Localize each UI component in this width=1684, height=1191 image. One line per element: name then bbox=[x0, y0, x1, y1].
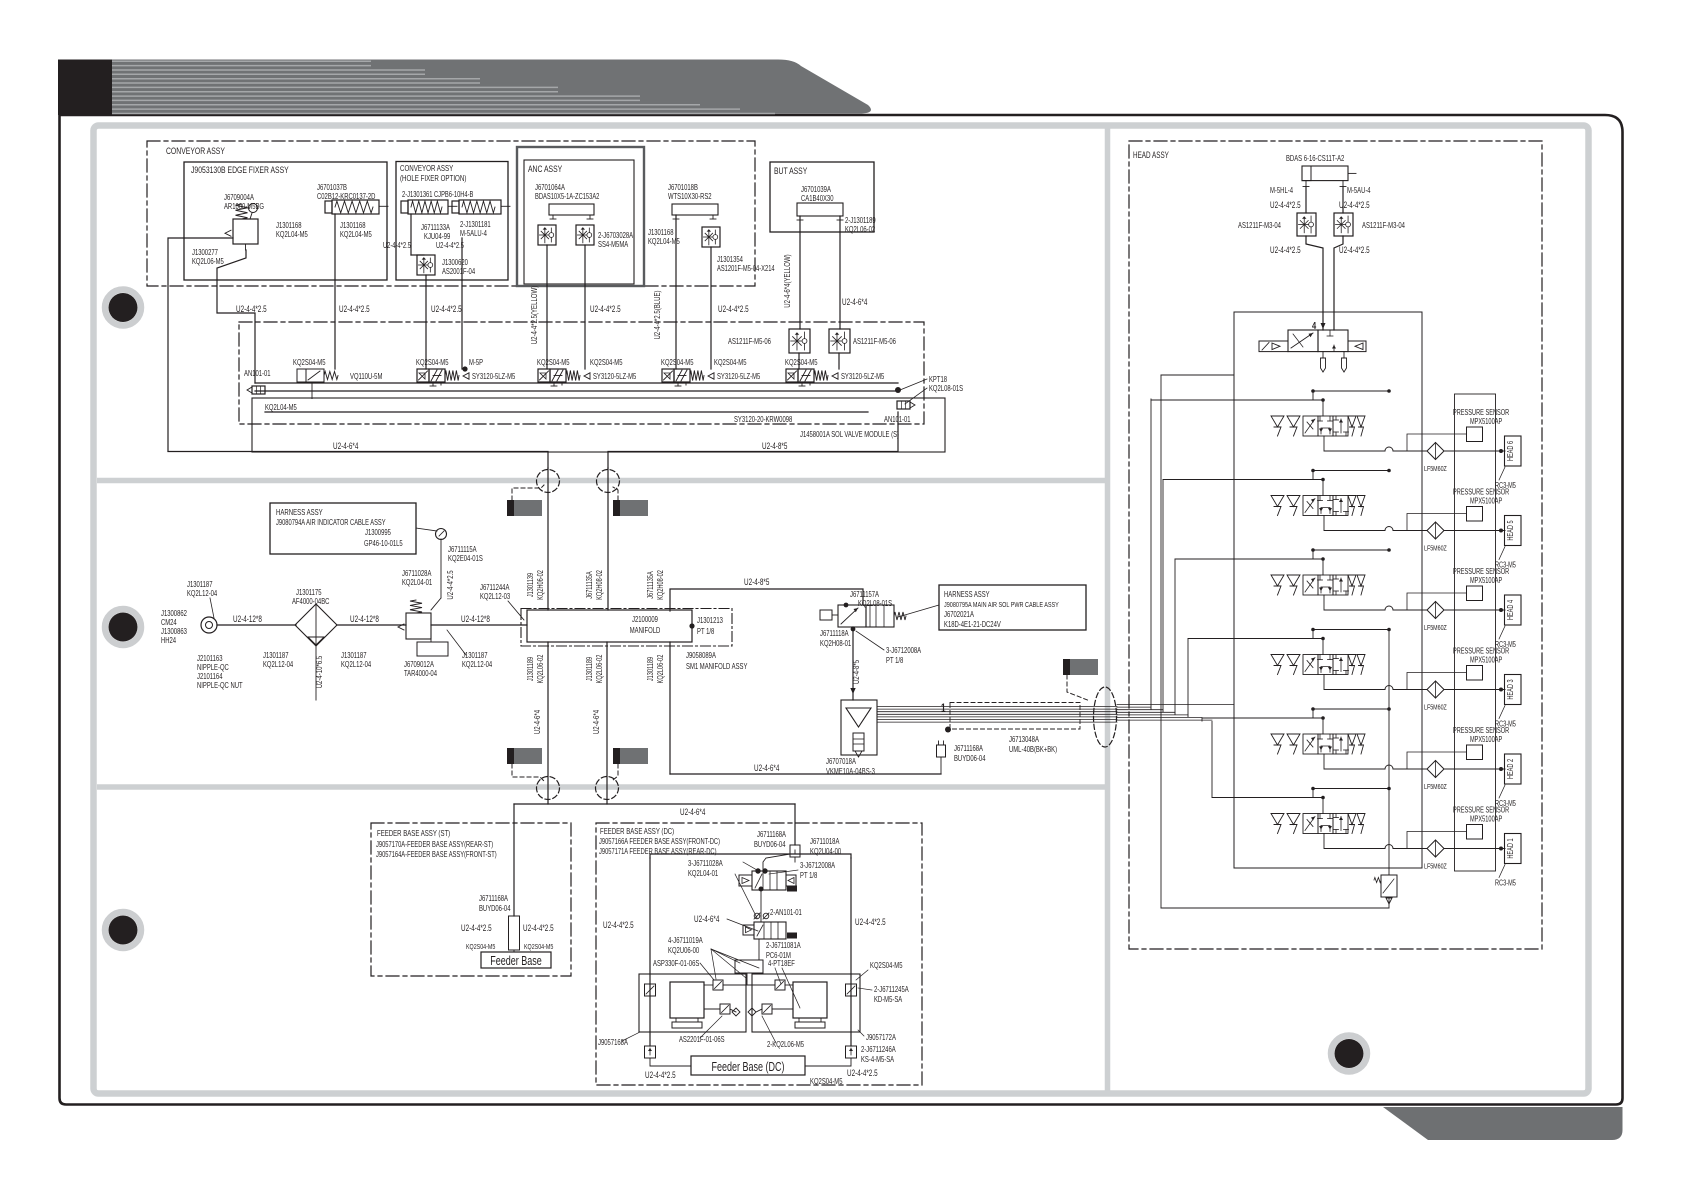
relief valve bbox=[1381, 875, 1397, 897]
svg-text:KQ2S04-M5: KQ2S04-M5 bbox=[661, 358, 694, 367]
svg-text:2-J6711246A: 2-J6711246A bbox=[861, 1045, 896, 1054]
air bus return line bbox=[265, 411, 868, 413]
pass-through circle left top bbox=[537, 470, 560, 493]
svg-text:KQ2S04-M5: KQ2S04-M5 bbox=[524, 942, 553, 951]
svg-text:TAR4000-04: TAR4000-04 bbox=[404, 669, 437, 678]
svg-text:J6701064A: J6701064A bbox=[535, 183, 565, 192]
svg-text:J6711168A: J6711168A bbox=[757, 830, 786, 839]
gray panel divider horizontal 2 bbox=[97, 784, 1105, 790]
svg-text:U2-4-4*2.5: U2-4-4*2.5 bbox=[855, 917, 886, 927]
pass-through ellipse to head panel bbox=[1094, 687, 1117, 747]
punch hole bbox=[105, 609, 141, 645]
svg-text:2-AN101-01: 2-AN101-01 bbox=[770, 908, 802, 917]
svg-text:J2101163: J2101163 bbox=[197, 654, 223, 663]
head valve row 3 bbox=[1271, 655, 1284, 666]
svg-text:PRESSURE SENSOR: PRESSURE SENSOR bbox=[1453, 647, 1509, 656]
svg-text:SY3120-5LZ-M5: SY3120-5LZ-M5 bbox=[593, 372, 637, 381]
bottom check left bbox=[645, 1046, 656, 1058]
svg-text:2-J6711245A: 2-J6711245A bbox=[874, 985, 909, 994]
hole fixer cylinder 2 bbox=[459, 200, 501, 214]
head row 4 output to head box bbox=[1444, 609, 1505, 611]
svg-text:4-PT18EF: 4-PT18EF bbox=[768, 959, 795, 968]
HEAD 1 box bbox=[1505, 834, 1522, 864]
head row 1 pilot stubs bbox=[1321, 796, 1325, 800]
svg-text:J1301139: J1301139 bbox=[526, 573, 535, 597]
svg-text:J9057168A: J9057168A bbox=[598, 1038, 628, 1047]
pointer harness to valve bbox=[898, 605, 939, 617]
svg-text:U2-4-6*4: U2-4-6*4 bbox=[754, 763, 779, 773]
svg-text:HEAD 2: HEAD 2 bbox=[1506, 759, 1515, 779]
svg-text:J1301168: J1301168 bbox=[340, 221, 366, 230]
wire ANC right to bus bbox=[584, 245, 586, 369]
light gray inner frame bbox=[94, 126, 1589, 1094]
svg-text:UML-40B(BK+BK): UML-40B(BK+BK) bbox=[1009, 745, 1057, 754]
head valve row 5 bbox=[1271, 496, 1284, 507]
svg-text:U2-4-4*2.5: U2-4-4*2.5 bbox=[603, 920, 634, 930]
main out line right U2-4-8*5 bbox=[608, 412, 898, 468]
svg-text:U2-4-4*2.5: U2-4-4*2.5 bbox=[1339, 200, 1370, 210]
head row 3 pressure sensor bbox=[1467, 666, 1483, 681]
pressure sensor column box bbox=[1455, 394, 1496, 871]
silencer AN101-01 right bbox=[897, 401, 910, 409]
svg-text:VKME10A-04BS-3: VKME10A-04BS-3 bbox=[826, 767, 875, 776]
svg-text:3-J6712008A: 3-J6712008A bbox=[800, 861, 835, 870]
svg-text:CONVEYOR ASSY: CONVEYOR ASSY bbox=[400, 163, 453, 173]
svg-text:U2-4-4*2.5: U2-4-4*2.5 bbox=[1339, 245, 1370, 255]
connector lead right top bbox=[613, 487, 618, 500]
filter LF5M60Z row 2 bbox=[1427, 761, 1444, 778]
manifold bottom wires bbox=[547, 642, 549, 804]
svg-text:J1301187: J1301187 bbox=[263, 651, 289, 660]
svg-text:U2-4-4*2.5: U2-4-4*2.5 bbox=[590, 304, 621, 314]
svg-text:4-J6711019A: 4-J6711019A bbox=[668, 936, 703, 945]
svg-text:U2-4-4*2.5: U2-4-4*2.5 bbox=[436, 241, 464, 250]
connector lead right bottom bbox=[613, 764, 618, 780]
svg-text:U2-4-6*4: U2-4-6*4 bbox=[680, 807, 705, 817]
svg-text:BDAS 6-16-CS11T-A2: BDAS 6-16-CS11T-A2 bbox=[1286, 154, 1345, 163]
svg-text:HARNESS ASSY: HARNESS ASSY bbox=[944, 590, 990, 599]
svg-text:AS1201F-M5-04-X214: AS1201F-M5-04-X214 bbox=[717, 264, 775, 273]
binder spine black block top-left bbox=[58, 60, 112, 116]
svg-text:2-J1301181: 2-J1301181 bbox=[460, 220, 491, 229]
svg-text:LF5M60Z: LF5M60Z bbox=[1424, 782, 1447, 791]
head circuit box bbox=[1234, 312, 1422, 868]
svg-text:MPX5100AP: MPX5100AP bbox=[1470, 815, 1502, 824]
BUT assy box bbox=[770, 162, 874, 232]
svg-text:J1301189: J1301189 bbox=[646, 657, 655, 681]
speed control right AS1211F-M3-04 bbox=[1334, 213, 1353, 236]
svg-text:KQ2S04-M5: KQ2S04-M5 bbox=[466, 942, 495, 951]
junction dot KPT18 bbox=[895, 387, 901, 393]
svg-text:KQ2H08-01: KQ2H08-01 bbox=[820, 639, 852, 648]
svg-text:J9057166A FEEDER BASE ASSY(FRO: J9057166A FEEDER BASE ASSY(FRONT-DC) bbox=[599, 837, 720, 846]
air line bundle to head bbox=[877, 706, 1117, 708]
svg-text:J6711133A: J6711133A bbox=[421, 223, 450, 232]
wire cylinder to bus bbox=[334, 214, 336, 369]
BUT cylinder bbox=[797, 203, 843, 216]
svg-text:PRESSURE SENSOR: PRESSURE SENSOR bbox=[1453, 806, 1509, 815]
wire to feeder DC bbox=[794, 804, 796, 845]
filter LF5M60Z row 5 bbox=[1427, 522, 1444, 539]
connector lead left bottom bbox=[512, 764, 544, 781]
filter LF5M60Z row 3 bbox=[1427, 681, 1444, 698]
svg-text:J6701018B: J6701018B bbox=[668, 183, 698, 192]
svg-text:PRESSURE SENSOR: PRESSURE SENSOR bbox=[1453, 488, 1509, 497]
svg-text:J6711135A: J6711135A bbox=[646, 571, 655, 599]
filter drain bbox=[315, 646, 317, 700]
wire BUT left down bbox=[799, 216, 801, 329]
ST branch fitting bbox=[509, 916, 520, 950]
svg-text:U2-4-6*4: U2-4-6*4 bbox=[842, 297, 867, 307]
feeder base DC dashed box bbox=[596, 823, 922, 1085]
punch hole bbox=[105, 912, 141, 948]
head row 3 output to head box bbox=[1444, 689, 1505, 691]
svg-text:3-J6712008A: 3-J6712008A bbox=[886, 646, 921, 655]
svg-text:KQ2H08-02: KQ2H08-02 bbox=[595, 570, 604, 600]
svg-text:KQ2S04-M5: KQ2S04-M5 bbox=[714, 358, 747, 367]
svg-text:3-J6711028A: 3-J6711028A bbox=[688, 859, 723, 868]
svg-text:Feeder Base: Feeder Base bbox=[490, 954, 542, 968]
svg-text:VQ110U-5M: VQ110U-5M bbox=[350, 372, 383, 381]
wire inlet to filter bbox=[217, 624, 296, 626]
top banner gray swoosh bbox=[112, 60, 871, 114]
svg-text:U2-4-4*2.5: U2-4-4*2.5 bbox=[523, 923, 554, 933]
svg-text:AF4000-04BC: AF4000-04BC bbox=[292, 597, 329, 606]
svg-text:FEEDER BASE ASSY (DC): FEEDER BASE ASSY (DC) bbox=[600, 826, 674, 836]
svg-text:BDAS10X5-1A-ZC153A2: BDAS10X5-1A-ZC153A2 bbox=[535, 192, 600, 201]
svg-text:U2-4-8*5: U2-4-8*5 bbox=[762, 441, 787, 451]
pointer to gauge bbox=[416, 528, 437, 531]
connector plug left bottom bbox=[507, 748, 542, 764]
svg-text:J1300620: J1300620 bbox=[442, 258, 468, 267]
svg-text:U2-4-4*2.5(BLUE): U2-4-4*2.5(BLUE) bbox=[652, 290, 662, 339]
wire x548 top to manifold bbox=[547, 468, 549, 610]
head valve row 2 bbox=[1271, 734, 1284, 745]
svg-text:AS1211F-M3-04: AS1211F-M3-04 bbox=[1362, 221, 1405, 230]
svg-text:J6711168A: J6711168A bbox=[479, 894, 508, 903]
supply line into box bbox=[1161, 374, 1234, 376]
svg-text:KS-4-M5-SA: KS-4-M5-SA bbox=[861, 1055, 894, 1064]
svg-text:KQ2S04-M5: KQ2S04-M5 bbox=[416, 358, 449, 367]
svg-text:J1301189: J1301189 bbox=[526, 657, 535, 681]
svg-text:KQ2H08-02: KQ2H08-02 bbox=[656, 570, 665, 600]
svg-text:PRESSURE SENSOR: PRESSURE SENSOR bbox=[1453, 408, 1509, 417]
gauge bbox=[250, 213, 252, 219]
head row 6 output wire bbox=[1324, 436, 1385, 451]
connector plug left top bbox=[507, 500, 542, 516]
left feeder motor bbox=[670, 982, 704, 1018]
svg-text:WTS10X30-RS2: WTS10X30-RS2 bbox=[668, 192, 712, 201]
svg-text:J6701039A: J6701039A bbox=[801, 185, 831, 194]
WTS cylinder bbox=[672, 204, 718, 215]
valve port dots bbox=[844, 603, 849, 608]
ejector cylinder bbox=[853, 733, 864, 751]
svg-text:HEAD 3: HEAD 3 bbox=[1506, 679, 1515, 699]
svg-text:KQ2E04-01S: KQ2E04-01S bbox=[448, 554, 483, 563]
silencer AN101-01 left bbox=[252, 386, 265, 394]
left check valve square bbox=[645, 984, 656, 996]
svg-text:KQ2L06-02: KQ2L06-02 bbox=[536, 655, 545, 684]
svg-text:J1301187: J1301187 bbox=[341, 651, 367, 660]
svg-text:KQ2L06-02: KQ2L06-02 bbox=[595, 655, 604, 684]
DC inlet fitting bbox=[790, 845, 800, 857]
pass-through circle right bottom bbox=[596, 777, 619, 800]
svg-text:U2-4-6*4: U2-4-6*4 bbox=[591, 710, 601, 734]
svg-text:J1301189: J1301189 bbox=[585, 657, 594, 681]
main head valve pilots bbox=[1259, 341, 1288, 352]
svg-text:CM24: CM24 bbox=[161, 618, 177, 627]
svg-text:U2-4-4*2.5: U2-4-4*2.5 bbox=[339, 304, 370, 314]
head row 3 feed wire bbox=[1188, 638, 1323, 640]
svg-text:J9080794A AIR INDICATOR CABLE: J9080794A AIR INDICATOR CABLE ASSY bbox=[276, 518, 386, 527]
svg-text:KQ2L08-01S: KQ2L08-01S bbox=[929, 384, 963, 393]
svg-text:AR1000-M5BG: AR1000-M5BG bbox=[224, 202, 264, 211]
head row 6 feed wire bbox=[1151, 399, 1323, 401]
svg-text:MPX5100AP: MPX5100AP bbox=[1470, 656, 1502, 665]
ANC flow valve right bbox=[576, 225, 594, 245]
svg-text:J6709012A: J6709012A bbox=[404, 660, 434, 669]
svg-text:GP46-10-01L5: GP46-10-01L5 bbox=[364, 539, 403, 548]
wire WTS left to bus bbox=[675, 215, 677, 369]
bundle sheath dashed outline bbox=[950, 703, 1080, 730]
svg-text:2-J1301361 CJPB6-10H4-B: 2-J1301361 CJPB6-10H4-B bbox=[402, 190, 473, 199]
svg-text:NIPPLE-QC: NIPPLE-QC bbox=[197, 663, 229, 672]
svg-text:J9057170A-FEEDER BASE ASSY(REA: J9057170A-FEEDER BASE ASSY(REAR-ST) bbox=[376, 840, 493, 849]
svg-text:ASP330F-01-06S: ASP330F-01-06S bbox=[653, 959, 700, 968]
wire M-5ALU-4 to bus bbox=[461, 238, 463, 369]
svg-text:KJU04-99: KJU04-99 bbox=[424, 232, 451, 241]
svg-text:LF5M60Z: LF5M60Z bbox=[1424, 623, 1447, 632]
wires AS1211F to bus bbox=[798, 353, 800, 369]
svg-text:AS1211F-M5-06: AS1211F-M5-06 bbox=[853, 337, 896, 346]
main out line left U2-4-6*4 bbox=[168, 452, 548, 469]
wire x607 down with branch bbox=[607, 468, 609, 610]
svg-text:AS1211F-M5-06: AS1211F-M5-06 bbox=[728, 337, 771, 346]
svg-text:J1301168: J1301168 bbox=[276, 221, 302, 230]
svg-text:J6713048A: J6713048A bbox=[1009, 735, 1039, 744]
filter LF5M60Z row 4 bbox=[1427, 602, 1444, 619]
svg-text:U2-4-4*2.5: U2-4-4*2.5 bbox=[718, 304, 749, 314]
svg-text:U2-4-4*2.5(YELLOW): U2-4-4*2.5(YELLOW) bbox=[529, 286, 539, 345]
svg-text:HH24: HH24 bbox=[161, 636, 176, 645]
HEAD 2 box bbox=[1505, 754, 1522, 784]
head row 5 pressure sensor bbox=[1467, 507, 1483, 522]
wire regulator left port to x168 bbox=[168, 238, 233, 451]
pass-through circle right top bbox=[597, 470, 620, 493]
svg-text:U2-4-4*2.5: U2-4-4*2.5 bbox=[383, 241, 411, 250]
branch U2-4-8*5 to valve bbox=[670, 589, 863, 611]
pointer fan bbox=[711, 949, 740, 963]
branch fitting BUYD06-04 bbox=[937, 745, 946, 757]
svg-text:KQ2L06-02: KQ2L06-02 bbox=[656, 655, 665, 684]
svg-text:J1301168: J1301168 bbox=[648, 228, 674, 237]
svg-text:U2-4-4*2.5: U2-4-4*2.5 bbox=[1270, 245, 1301, 255]
svg-text:BUYD06-04: BUYD06-04 bbox=[954, 754, 986, 763]
svg-text:CONVEYOR ASSY: CONVEYOR ASSY bbox=[166, 146, 225, 157]
svg-text:AN101-01: AN101-01 bbox=[244, 369, 271, 378]
svg-text:KPT18: KPT18 bbox=[929, 375, 947, 384]
head row 1 pressure sensor bbox=[1467, 825, 1483, 840]
Feeder Base DC box bbox=[691, 1056, 805, 1075]
HEAD 6 box bbox=[1505, 436, 1522, 466]
head row 5 output to head box bbox=[1444, 530, 1505, 532]
svg-text:CA1B40X30: CA1B40X30 bbox=[801, 194, 834, 203]
svg-text:HEAD ASSY: HEAD ASSY bbox=[1133, 150, 1169, 160]
svg-text:KQ2S04-M5: KQ2S04-M5 bbox=[537, 358, 570, 367]
ANC flow valve left bbox=[538, 225, 556, 245]
wire cyl1 to valve bbox=[410, 214, 412, 255]
wire to feeder ST bbox=[513, 804, 515, 916]
svg-text:KQ2L12-04: KQ2L12-04 bbox=[263, 660, 294, 669]
bottom-right gray tab bbox=[1383, 1107, 1623, 1140]
head row 1 output wire bbox=[1324, 834, 1385, 849]
connector plug right-mid to head bbox=[1063, 659, 1098, 675]
wire vq110u ports bbox=[311, 382, 313, 399]
head row 3 pilot stubs bbox=[1321, 637, 1325, 641]
bottom check right bbox=[846, 1046, 857, 1058]
conveyor assy dashed boundary bbox=[147, 141, 755, 286]
svg-text:U2-4-6*4(YELLOW): U2-4-6*4(YELLOW) bbox=[782, 254, 792, 308]
wire valve to bus bbox=[425, 275, 427, 369]
right feeder motor bbox=[793, 982, 827, 1018]
ANC assy inner box bbox=[524, 160, 634, 284]
head row 4 output wire bbox=[1324, 595, 1385, 610]
right feeder group box bbox=[752, 974, 860, 1032]
svg-text:J9057171A FEEDER BASE ASSY(REA: J9057171A FEEDER BASE ASSY(REAR-DC) bbox=[599, 847, 717, 856]
AS1211F valve left bbox=[789, 329, 810, 353]
svg-text:J1300995: J1300995 bbox=[365, 528, 391, 537]
bottom dotted box line bbox=[1234, 867, 1422, 869]
svg-text:SM1 MANIFOLD ASSY: SM1 MANIFOLD ASSY bbox=[686, 662, 748, 671]
svg-text:M-5AU-4: M-5AU-4 bbox=[1347, 186, 1371, 195]
wire valve2 to manifold bbox=[758, 939, 760, 960]
head valve row 4 bbox=[1271, 575, 1284, 586]
svg-text:J1458001A SOL VALVE MODULE (S): J1458001A SOL VALVE MODULE (S) bbox=[800, 430, 899, 439]
svg-text:J1301354: J1301354 bbox=[717, 255, 743, 264]
svg-text:M-5HL-4: M-5HL-4 bbox=[1270, 186, 1293, 195]
svg-text:U2-4-4*2.5: U2-4-4*2.5 bbox=[431, 304, 462, 314]
head row 4 pilot stubs bbox=[1321, 557, 1325, 561]
svg-text:KD-M5-SA: KD-M5-SA bbox=[874, 995, 903, 1004]
svg-text:KQ2L08-01S: KQ2L08-01S bbox=[858, 599, 892, 608]
wires to feeder base dc bbox=[650, 1058, 691, 1066]
wire cylinder to speed ctls bbox=[1305, 187, 1307, 214]
svg-text:U2-4-6*4: U2-4-6*4 bbox=[694, 914, 719, 924]
svg-text:U2-4-6*4: U2-4-6*4 bbox=[532, 710, 542, 734]
svg-text:J1301187: J1301187 bbox=[462, 651, 488, 660]
connector lead dashed bbox=[1067, 675, 1090, 701]
svg-text:U2-4-4*2.5: U2-4-4*2.5 bbox=[1270, 200, 1301, 210]
wire valve1 to valve2 bbox=[760, 890, 762, 922]
wire regulator bottom to bus bbox=[217, 250, 255, 383]
head row 6 output to head box bbox=[1444, 450, 1505, 452]
svg-text:(HOLE FIXER OPTION): (HOLE FIXER OPTION) bbox=[400, 173, 466, 183]
right main vertical bbox=[1388, 631, 1390, 875]
feeder bus U2-4-6*4 bbox=[514, 803, 795, 805]
svg-text:RC3-M5: RC3-M5 bbox=[1495, 879, 1516, 888]
svg-text:KQ2S04-M5: KQ2S04-M5 bbox=[293, 358, 326, 367]
svg-text:2-KQ2L06-M5: 2-KQ2L06-M5 bbox=[767, 1040, 804, 1049]
HEAD 4 box bbox=[1505, 595, 1522, 625]
upper mid valve squares bbox=[713, 980, 723, 990]
banner pinstripes bbox=[112, 61, 775, 113]
wires to main head valve bbox=[1306, 236, 1323, 330]
svg-text:2-J6711081A: 2-J6711081A bbox=[766, 941, 801, 950]
svg-text:PT 1/8: PT 1/8 bbox=[800, 871, 818, 880]
inlet nipple circle bbox=[201, 617, 217, 633]
svg-text:NIPPLE-QC NUT: NIPPLE-QC NUT bbox=[197, 681, 243, 690]
small check diamonds bbox=[732, 1008, 740, 1016]
head row 4 pressure sensor bbox=[1467, 586, 1483, 601]
svg-text:BUYD06-04: BUYD06-04 bbox=[479, 904, 511, 913]
svg-text:U2-4-12*8: U2-4-12*8 bbox=[461, 614, 490, 624]
svg-text:LF5M60Z: LF5M60Z bbox=[1424, 464, 1447, 473]
head row 1 output to head box bbox=[1444, 848, 1505, 850]
svg-text:SS4-M5MA: SS4-M5MA bbox=[598, 240, 629, 249]
svg-text:MPX5100AP: MPX5100AP bbox=[1470, 497, 1502, 506]
feeder base ST dashed box bbox=[371, 823, 571, 976]
connector plug right top bbox=[613, 500, 648, 516]
head row 3 output wire bbox=[1324, 675, 1385, 690]
ANC cylinder bbox=[549, 204, 594, 215]
svg-text:KQ2S04-M5: KQ2S04-M5 bbox=[785, 358, 818, 367]
head row 2 output to head box bbox=[1444, 768, 1505, 770]
svg-text:HARNESS ASSY: HARNESS ASSY bbox=[276, 507, 323, 517]
head row 1 feed wire bbox=[1212, 797, 1323, 799]
svg-text:LF5M60Z: LF5M60Z bbox=[1424, 544, 1447, 553]
svg-text:BUT ASSY: BUT ASSY bbox=[774, 166, 808, 177]
gray panel divider horizontal 1 bbox=[97, 478, 1105, 484]
head row 5 pilot stubs bbox=[1321, 478, 1325, 482]
svg-text:Feeder Base (DC): Feeder Base (DC) bbox=[712, 1060, 785, 1074]
wire to valve1 jog bbox=[794, 850, 796, 854]
svg-text:KQ2H06-02: KQ2H06-02 bbox=[536, 570, 545, 600]
head valve row 1 bbox=[1271, 814, 1284, 825]
svg-text:J1300863: J1300863 bbox=[161, 627, 187, 636]
svg-text:KQ2L04-M5: KQ2L04-M5 bbox=[265, 403, 297, 412]
svg-text:HEAD 6: HEAD 6 bbox=[1506, 441, 1515, 461]
bundle end dot bbox=[945, 727, 951, 733]
svg-text:J6701037B: J6701037B bbox=[317, 183, 347, 192]
head row 2 pilot stubs bbox=[1321, 716, 1325, 720]
edge fixer assy box J9053130B bbox=[184, 162, 387, 280]
svg-text:J2100009: J2100009 bbox=[632, 615, 658, 624]
manifold dash-dot box bbox=[521, 609, 732, 647]
svg-text:1: 1 bbox=[941, 703, 946, 715]
junction dot M-5P bbox=[462, 366, 467, 371]
gray panel divider vertical bbox=[1105, 128, 1111, 1091]
svg-text:HEAD 1: HEAD 1 bbox=[1506, 838, 1515, 858]
punch hole bbox=[1331, 1036, 1367, 1072]
svg-text:K18D-4E1-21-DC24V: K18D-4E1-21-DC24V bbox=[944, 620, 1001, 629]
svg-text:U2-4-12*8: U2-4-12*8 bbox=[233, 614, 262, 624]
svg-text:KQ2L04-01: KQ2L04-01 bbox=[402, 578, 433, 587]
wire BUT right down bbox=[839, 216, 841, 329]
svg-text:KQ2S04-M5: KQ2S04-M5 bbox=[810, 1077, 843, 1086]
svg-text:2-J1301189: 2-J1301189 bbox=[845, 216, 876, 225]
head row 2 pressure sensor bbox=[1467, 745, 1483, 760]
valve exhaust pins bbox=[1322, 352, 1324, 358]
right check valve square bbox=[846, 984, 857, 996]
svg-text:J9053130B EDGE FIXER ASSY: J9053130B EDGE FIXER ASSY bbox=[191, 165, 289, 176]
DC valve 2 bbox=[754, 922, 786, 939]
ANC assy outer box bbox=[517, 147, 644, 286]
svg-text:J9058089A: J9058089A bbox=[686, 651, 716, 660]
connector lead left top bbox=[512, 485, 544, 500]
BDAS cylinder bbox=[1302, 166, 1348, 181]
manifold J2100009 box bbox=[527, 610, 692, 642]
main head valve body bbox=[1288, 330, 1318, 352]
